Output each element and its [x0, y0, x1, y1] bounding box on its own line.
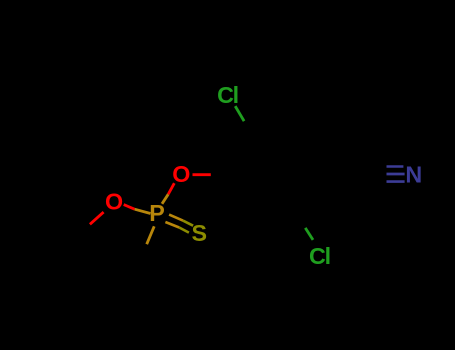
- wire: P=S double bond line 1 phosphorus half: [169, 215, 183, 221]
- wire: P=S double bond line 1 sulfur half: [183, 221, 193, 226]
- wire: bond Cl(top) to ring carbon: [235, 106, 244, 121]
- wire: P=S double bond line 2 phosphorus half: [165, 222, 179, 228]
- wire: bond Cl(bottom) to ring carbon: [305, 228, 313, 240]
- wire: bond O(ethoxy) to P, oxygen half: [124, 205, 135, 210]
- wire: P=S double bond line 2 sulfur half: [179, 228, 189, 233]
- svg-text:O: O: [172, 161, 190, 187]
- svg-text:O: O: [105, 188, 123, 214]
- svg-text:Cl: Cl: [309, 243, 330, 269]
- svg-text:N: N: [405, 162, 422, 188]
- wire: bond P to methyl carbon, phosphorus half: [147, 226, 155, 244]
- wire: bond O(ethoxy) to ethyl CH2, oxygen half: [90, 212, 104, 224]
- wire: bond O(aryl) to P, phosphorus half: [162, 194, 168, 204]
- wire: C#N triple bond line 2 (middle): [387, 173, 405, 176]
- wire: C#N triple bond line 3 (bottom): [387, 180, 405, 183]
- svg-text:S: S: [192, 220, 208, 246]
- svg-text:P: P: [149, 200, 165, 226]
- wire: bond O(aryl) to P, oxygen half: [168, 183, 174, 194]
- wire: C#N triple bond line 1 (top): [387, 165, 404, 168]
- wire: bond O(aryl) to ring carbon: [193, 173, 211, 176]
- svg-text:Cl: Cl: [217, 82, 238, 108]
- wire: bond O(ethoxy) to P, phosphorus half: [135, 209, 151, 213]
